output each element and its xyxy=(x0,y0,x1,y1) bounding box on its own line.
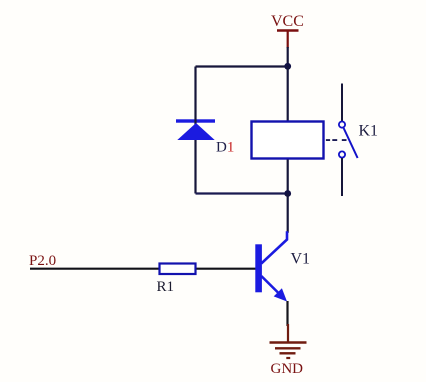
wire resistor to transistor base xyxy=(197,268,256,270)
wire junction to transistor collector xyxy=(287,194,289,233)
svg-text:R1: R1 xyxy=(157,279,175,295)
resistor R1 xyxy=(160,264,196,275)
wire top horizontal xyxy=(196,65,288,67)
switch contact K1 top wire xyxy=(341,84,343,122)
node bottom junction xyxy=(284,190,291,197)
diode D1 cathode bar xyxy=(176,119,215,122)
node top junction xyxy=(284,63,291,70)
svg-text:GND: GND xyxy=(271,361,304,377)
wire P2.0 to resistor xyxy=(30,268,159,270)
svg-text:VCC: VCC xyxy=(271,13,304,30)
switch contact K1 top terminal xyxy=(339,122,345,128)
svg-text:V1: V1 xyxy=(291,251,311,268)
switch contact K1 bottom wire xyxy=(341,158,343,196)
wire VCC stem to top junction xyxy=(287,47,289,66)
power symbol VCC xyxy=(277,31,299,49)
transistor V1 xyxy=(255,231,287,301)
svg-text:D1: D1 xyxy=(216,140,234,156)
svg-text:P2.0: P2.0 xyxy=(29,253,56,269)
relay coil K1 xyxy=(252,122,324,159)
wire emitter to ground xyxy=(286,301,288,326)
wire center vertical (junction to relay coil top) xyxy=(287,66,289,121)
switch contact K1 bottom terminal xyxy=(339,151,345,157)
diode D1 xyxy=(177,123,214,140)
switch blade xyxy=(344,128,358,158)
wire bottom horizontal xyxy=(196,192,288,194)
relay actuator dashed link xyxy=(326,139,350,141)
svg-text:K1: K1 xyxy=(359,123,379,140)
ground GND xyxy=(270,324,307,358)
wire relay coil bottom to bottom junction xyxy=(287,160,289,194)
wire left vertical xyxy=(194,67,196,194)
